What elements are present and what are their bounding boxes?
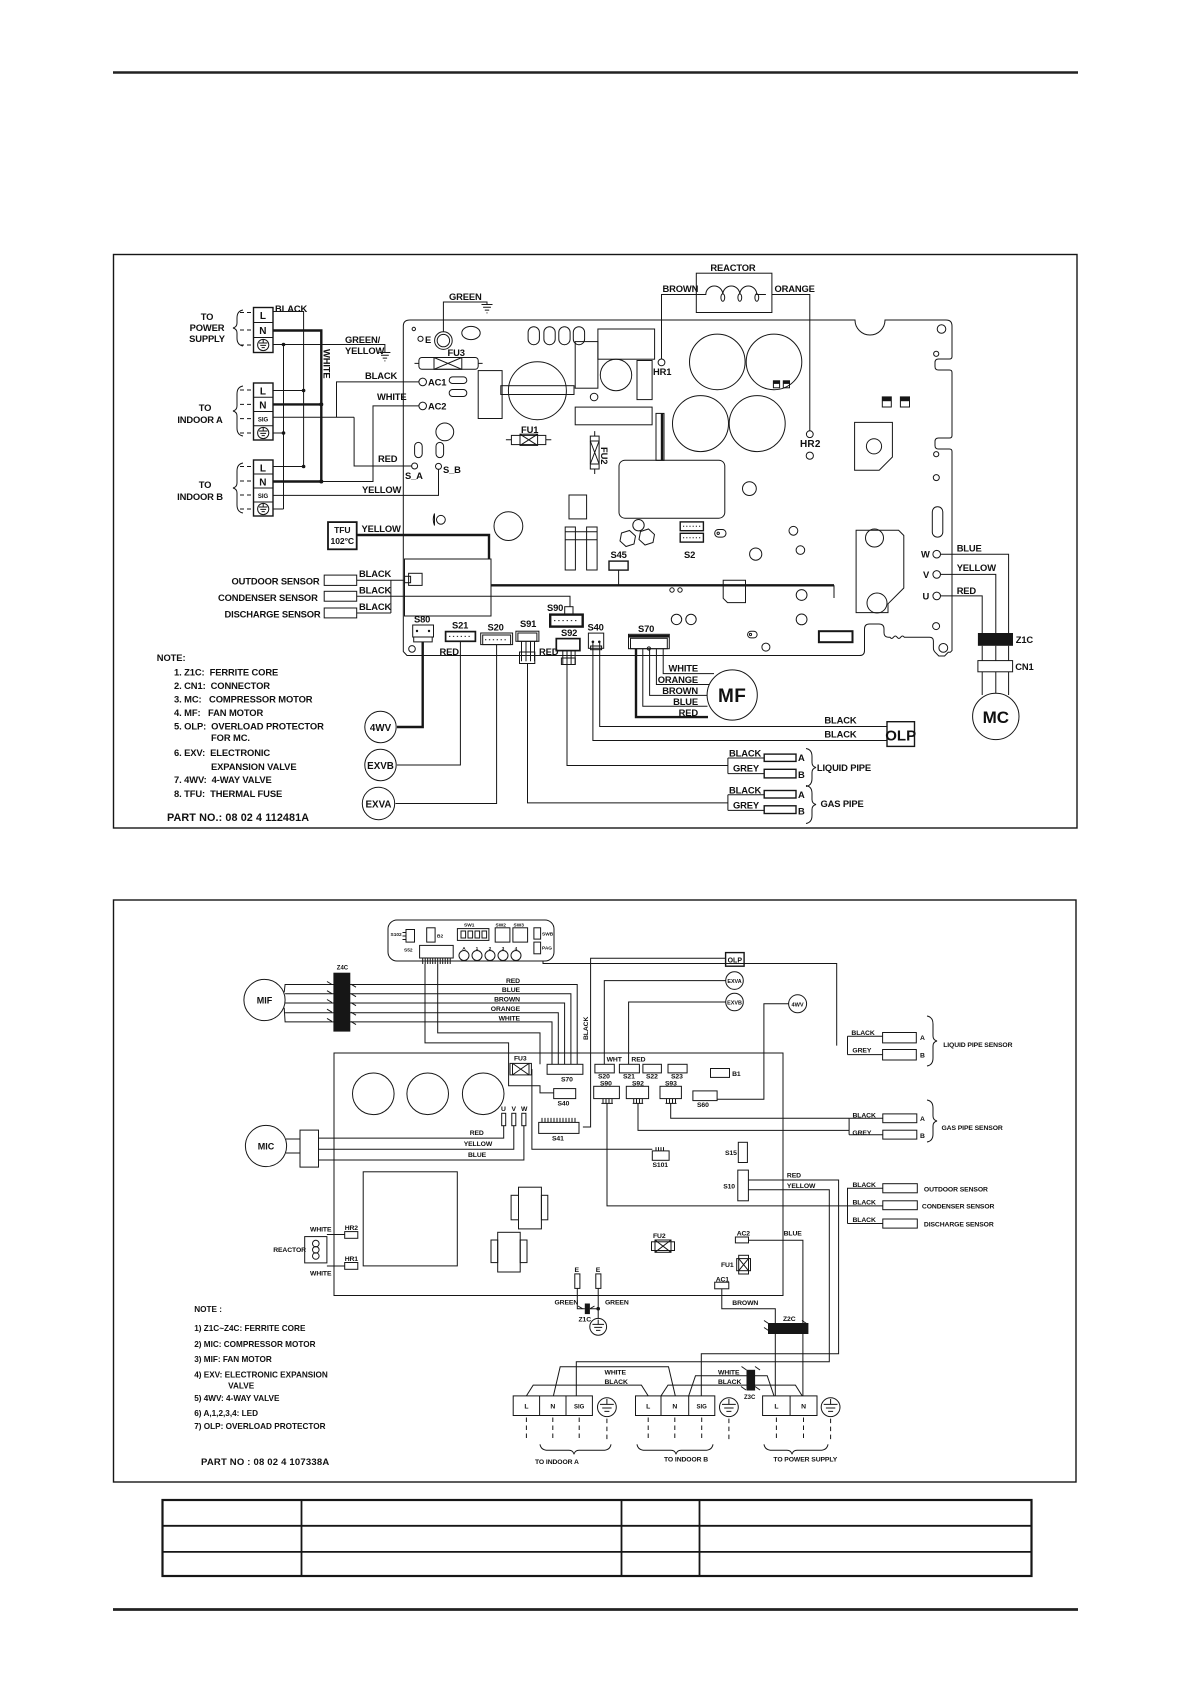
- wire blue W: [941, 554, 1009, 633]
- resistor E right: [596, 1267, 601, 1288]
- svg-text:7. 4WV: 4-WAY VALVE: 7. 4WV: 4-WAY VALVE: [174, 774, 272, 785]
- note list top: [157, 652, 324, 799]
- svg-text:Z3C: Z3C: [744, 1395, 756, 1401]
- thick pad rect bottom right: [819, 631, 853, 642]
- label WHITE AC2: [377, 391, 406, 402]
- svg-text:GREY: GREY: [852, 1048, 871, 1055]
- label BLUE W: [957, 543, 982, 554]
- svg-text:WHITE: WHITE: [605, 1370, 627, 1377]
- svg-text:1) Z1C~Z4C: FERRITE CORE: 1) Z1C~Z4C: FERRITE CORE: [194, 1324, 306, 1333]
- outdoor sensor rect: [324, 568, 391, 586]
- svg-text:L: L: [260, 387, 266, 398]
- wire yellow TFU thick: [357, 535, 489, 559]
- part number bottom: [201, 1457, 329, 1468]
- svg-text:HR1: HR1: [653, 366, 671, 377]
- svg-text:FOR MC.: FOR MC.: [211, 732, 250, 743]
- MIF wire labels: [491, 978, 521, 1022]
- label WHITE vertical: [322, 349, 333, 378]
- svg-text:DISCHARGE SENSOR: DISCHARGE SENSOR: [924, 1222, 994, 1229]
- svg-text:BLACK: BLACK: [275, 303, 307, 314]
- svg-text:NOTE :: NOTE :: [194, 1305, 222, 1314]
- bottom diagram outer box: [114, 900, 1077, 1482]
- svg-text:BLACK: BLACK: [359, 601, 391, 612]
- component small upper mid: [569, 495, 587, 519]
- svg-text:YELLOW: YELLOW: [362, 484, 402, 495]
- terminal block indoor A: [254, 383, 274, 440]
- svg-text:MC: MC: [983, 708, 1009, 727]
- junction dots N wire: [319, 402, 323, 483]
- svg-text:FU2: FU2: [653, 1233, 666, 1240]
- brace TO INDOOR A: [535, 1444, 611, 1466]
- svg-text:TO INDOOR A: TO INDOOR A: [535, 1459, 579, 1466]
- slot right edge: [932, 507, 943, 537]
- connector S21: [446, 620, 476, 642]
- valve EXVA: [362, 787, 394, 819]
- svg-text:B: B: [920, 1053, 925, 1060]
- fuse FU2 bottom: [652, 1233, 675, 1252]
- pad HR2 bottom: [327, 1225, 358, 1238]
- ground indoor B bottom: [720, 1398, 739, 1417]
- svg-text:EXVA: EXVA: [366, 800, 392, 811]
- brace liquid sensor: [927, 1016, 937, 1066]
- heatsink bracket upper: [855, 422, 893, 470]
- wire S90 to condenser: [607, 1103, 883, 1206]
- board wire to S40: [425, 964, 554, 1093]
- svg-text:WHITE: WHITE: [377, 391, 406, 402]
- svg-text:FU2: FU2: [599, 447, 610, 464]
- condenser sensor rect: [324, 585, 570, 607]
- pad AC2: [419, 401, 446, 412]
- svg-text:NOTE:: NOTE:: [157, 652, 186, 663]
- wire S93: [671, 1103, 849, 1118]
- svg-text:B: B: [798, 806, 805, 817]
- circle mid center: [743, 482, 757, 496]
- brace TO INDOOR B: [637, 1444, 713, 1463]
- transformer component 2: [491, 1232, 527, 1272]
- svg-text:WHITE: WHITE: [499, 1015, 521, 1022]
- svg-text:BLACK: BLACK: [824, 715, 856, 726]
- label S45: [609, 549, 628, 570]
- svg-text:S91: S91: [520, 618, 536, 629]
- circle below block: [600, 359, 631, 390]
- connector S70 bottom: [547, 1064, 583, 1083]
- S45 cluster circles: [620, 520, 655, 547]
- dashed stubs indoor A: [240, 390, 254, 433]
- connector S20: [481, 622, 513, 645]
- big rect below TFU wire: [405, 559, 492, 616]
- svg-text:OUTDOOR SENSOR: OUTDOOR SENSOR: [232, 576, 320, 587]
- reactor bottom box: [305, 1237, 327, 1263]
- svg-text:BLACK: BLACK: [729, 785, 761, 796]
- svg-text:S40: S40: [588, 622, 604, 633]
- svg-text:TO: TO: [199, 402, 212, 413]
- heatsink bracket lower: [856, 529, 904, 613]
- wire EXVA to S20: [604, 981, 725, 1065]
- top rule: [113, 71, 1078, 74]
- label YELLOW S_B: [362, 484, 402, 495]
- label BROWN bottom: [732, 1300, 758, 1307]
- stadium pads right of AC1: [449, 377, 467, 397]
- svg-text:6. EXV: ELECTRONIC: 6. EXV: ELECTRONIC: [174, 747, 270, 758]
- label CONDENSER SENSOR: [218, 592, 318, 603]
- fuse FU1 bottom: [721, 1255, 751, 1274]
- resistor E left: [575, 1267, 580, 1288]
- wire S20 to EXVA: [396, 645, 497, 804]
- MIC wires: [286, 1126, 524, 1160]
- pad HR1 bottom: [327, 1256, 358, 1269]
- wire yellow S_B: [273, 469, 439, 496]
- tab screw holes bottom right: [933, 623, 948, 653]
- svg-text:CONDENSER SENSOR: CONDENSER SENSOR: [218, 592, 318, 603]
- svg-text:AC1: AC1: [428, 377, 446, 388]
- label OUTDOOR SENSOR: [232, 576, 320, 587]
- ground indoor A bottom: [598, 1398, 617, 1417]
- svg-text:TO: TO: [201, 311, 214, 322]
- svg-text:REACTOR: REACTOR: [273, 1247, 306, 1254]
- label BLUE bottom: [784, 1231, 803, 1238]
- bottom rect of cluster: [575, 407, 652, 425]
- pad AC2 bottom: [735, 1231, 750, 1243]
- label YELLOW TFU: [362, 523, 402, 534]
- svg-text:Z2C: Z2C: [783, 1316, 796, 1323]
- wire red S10 to SIG B: [701, 1180, 838, 1396]
- terminal block power supply: [254, 308, 274, 353]
- ground power bottom: [821, 1398, 840, 1417]
- compressor MIC: [245, 1125, 286, 1166]
- svg-text:GAS PIPE SENSOR: GAS PIPE SENSOR: [942, 1125, 1003, 1132]
- black bus indoorB power: [661, 1385, 802, 1396]
- wire S91 to gas pipe: [528, 664, 728, 803]
- wire black OLP to S41: [583, 958, 726, 1127]
- svg-text:RED: RED: [957, 585, 977, 596]
- svg-text:WHITE: WHITE: [669, 663, 698, 674]
- ferrite core Z4C: [333, 966, 350, 1032]
- valve EXVB bottom: [726, 993, 744, 1011]
- transformer circle: [508, 362, 566, 420]
- svg-text:6) A,1,2,3,4: LED: 6) A,1,2,3,4: LED: [194, 1409, 258, 1418]
- dashes indoor A: [526, 1418, 607, 1442]
- svg-text:GREEN: GREEN: [449, 291, 482, 302]
- svg-text:GREEN: GREEN: [555, 1300, 579, 1307]
- wire S92 to liquid pipe: [567, 665, 728, 766]
- svg-text:BLUE: BLUE: [502, 987, 521, 994]
- big square component: [363, 1172, 457, 1266]
- svg-text:RED: RED: [378, 453, 398, 464]
- svg-text:BROWN: BROWN: [662, 685, 698, 696]
- svg-text:GAS PIPE: GAS PIPE: [821, 798, 864, 809]
- svg-text:4WV: 4WV: [792, 1003, 804, 1009]
- wire ground green-yellow: [273, 345, 385, 510]
- svg-text:S90: S90: [547, 602, 563, 613]
- svg-text:3) MIF: FAN MOTOR: 3) MIF: FAN MOTOR: [194, 1355, 272, 1364]
- svg-text:SIG: SIG: [697, 1404, 708, 1410]
- svg-text:N: N: [259, 477, 266, 488]
- svg-text:L: L: [524, 1404, 528, 1411]
- circle above S_B: [436, 423, 454, 441]
- black bus indoorA indoorB: [526, 1385, 648, 1396]
- svg-text:EXVA: EXVA: [727, 979, 741, 985]
- label BLACK AC1: [365, 370, 397, 381]
- label TO INDOOR B: [177, 479, 223, 502]
- transformer right rect: [575, 342, 598, 389]
- svg-text:S_B: S_B: [443, 464, 461, 475]
- svg-text:TO INDOOR B: TO INDOOR B: [664, 1457, 708, 1464]
- wires S40 to OLP: [593, 643, 887, 741]
- S70 wires to MF: [636, 649, 714, 717]
- OLP box bottom: [726, 953, 745, 967]
- label RED below S21: [440, 646, 460, 657]
- svg-text:YELLOW: YELLOW: [362, 523, 402, 534]
- svg-text:S92: S92: [561, 627, 577, 638]
- wire S21 to EXVB: [397, 641, 460, 765]
- component B2: [427, 928, 444, 942]
- svg-text:B: B: [798, 769, 805, 780]
- TFU thermal fuse box: [328, 522, 357, 549]
- brace liquid pipe: [806, 749, 816, 787]
- valve EXVA bottom: [726, 972, 744, 990]
- labels WHITE reactor: [310, 1227, 332, 1278]
- connector S41: [539, 1118, 579, 1143]
- svg-text:S20: S20: [598, 1074, 610, 1081]
- svg-text:N: N: [259, 401, 266, 412]
- wires Z1C to CN1: [982, 646, 1008, 661]
- svg-text:YELLOW: YELLOW: [345, 345, 385, 356]
- svg-text:L: L: [774, 1404, 778, 1411]
- svg-text:CONDENSER SENSOR: CONDENSER SENSOR: [922, 1204, 995, 1211]
- wire brown HR1: [662, 295, 697, 360]
- component PAG: [534, 942, 552, 954]
- svg-text:BLACK: BLACK: [583, 1017, 590, 1040]
- svg-text:BLACK: BLACK: [729, 748, 761, 759]
- svg-text:OLP: OLP: [885, 728, 916, 745]
- svg-text:U: U: [501, 1106, 506, 1113]
- svg-text:OUTDOOR SENSOR: OUTDOOR SENSOR: [924, 1187, 988, 1194]
- svg-text:S23: S23: [671, 1074, 683, 1081]
- connector S70: [629, 623, 670, 650]
- capacitor circles: [673, 334, 802, 452]
- PCB circles: [353, 1073, 505, 1115]
- pad AC1 bottom: [715, 1277, 730, 1289]
- svg-text:TFU: TFU: [334, 525, 350, 535]
- discharge sensor bottom: [848, 1217, 994, 1229]
- dashes power: [776, 1418, 830, 1442]
- svg-text:A: A: [920, 1035, 925, 1042]
- resistors U V W: [501, 1106, 528, 1126]
- svg-text:S101: S101: [653, 1162, 669, 1169]
- fan motor MF: [707, 670, 757, 720]
- svg-text:PART NO : 08 02 4 107338A: PART NO : 08 02 4 107338A: [201, 1457, 329, 1468]
- svg-text:HR2: HR2: [345, 1225, 359, 1232]
- labels GREEN: [555, 1300, 629, 1307]
- svg-text:S70: S70: [638, 623, 654, 634]
- labels RED YELLOW S10: [787, 1173, 816, 1191]
- svg-text:BLACK: BLACK: [359, 568, 391, 579]
- svg-text:SIG: SIG: [258, 494, 269, 500]
- label BLACK OLP1: [824, 715, 856, 726]
- svg-text:HR2: HR2: [800, 439, 821, 450]
- label GREEN/YELLOW: [345, 334, 385, 356]
- wire red U: [941, 596, 983, 633]
- svg-text:RED: RED: [679, 707, 699, 718]
- svg-text:102°C: 102°C: [331, 536, 354, 546]
- brace power supply: [233, 310, 243, 346]
- svg-text:EXPANSION VALVE: EXPANSION VALVE: [211, 761, 297, 772]
- labels WHITE BLACK right pair: [718, 1370, 741, 1387]
- terminal block power bottom: [763, 1396, 817, 1416]
- wire orange HR2: [772, 295, 810, 431]
- wire S80 to 4WV thick: [397, 642, 423, 727]
- bottom rule: [113, 1608, 1078, 1611]
- labels RED YELLOW BLUE MIC: [464, 1130, 493, 1159]
- connector S102: [391, 930, 415, 954]
- label DISCHARGE SENSOR: [225, 609, 321, 620]
- svg-text:REACTOR: REACTOR: [710, 262, 756, 273]
- svg-text:MIF: MIF: [257, 996, 273, 1006]
- svg-text:WHT: WHT: [607, 1057, 623, 1064]
- connector S92: [556, 627, 580, 665]
- svg-text:S102: S102: [391, 932, 403, 938]
- LEDs A 1 2 3 4: [459, 946, 521, 961]
- svg-text:EXVB: EXVB: [727, 1001, 742, 1007]
- ground terminal power supply: [258, 339, 269, 350]
- svg-text:W: W: [921, 549, 930, 560]
- wire yellow V: [941, 574, 996, 633]
- svg-text:1. Z1C: FERRITE CORE: 1. Z1C: FERRITE CORE: [174, 667, 278, 678]
- liquid pipe group: [728, 748, 805, 781]
- svg-text:S10: S10: [723, 1184, 735, 1191]
- svg-text:GREEN/: GREEN/: [345, 334, 381, 345]
- wire black AC1: [273, 382, 419, 417]
- svg-text:WHITE: WHITE: [310, 1227, 332, 1234]
- stadium pad right of S2: [715, 530, 726, 538]
- svg-text:RED: RED: [506, 978, 520, 985]
- board wire to liquid feed: [543, 961, 837, 1046]
- connector S80: [413, 614, 434, 642]
- wires CN1 to MC: [982, 672, 1008, 695]
- svg-text:ORANGE: ORANGE: [658, 674, 698, 685]
- ferrite Z1C bottom: [577, 1288, 594, 1323]
- label REACTOR: [710, 262, 756, 273]
- svg-text:BROWN: BROWN: [494, 997, 520, 1004]
- svg-text:POWER: POWER: [190, 322, 225, 333]
- sensor bus vertical: [391, 580, 405, 613]
- labels WHITE BLACK left pair: [605, 1370, 628, 1387]
- switch SW3: [513, 923, 528, 943]
- pad HR2: [800, 431, 821, 460]
- reactor box: [696, 273, 772, 312]
- dashed stubs indoor B: [240, 467, 254, 510]
- label YELLOW V: [957, 562, 997, 573]
- transformer left rect: [478, 371, 502, 419]
- svg-text:EXVB: EXVB: [367, 761, 394, 772]
- labels WHT RED: [607, 1057, 646, 1064]
- svg-text:FU3: FU3: [514, 1056, 527, 1063]
- svg-text:N: N: [672, 1404, 677, 1411]
- terminal block indoor B bottom: [636, 1396, 715, 1416]
- wire 4WV to S60: [717, 1004, 789, 1100]
- svg-text:BROWN: BROWN: [663, 283, 699, 294]
- svg-text:ORANGE: ORANGE: [491, 1006, 521, 1013]
- svg-text:S15: S15: [725, 1150, 737, 1157]
- revision table: [163, 1500, 1032, 1576]
- svg-text:BLACK: BLACK: [359, 585, 391, 596]
- small pads near bottom edge: [748, 590, 807, 652]
- terminal E circle small: [418, 334, 431, 345]
- pad S60: [693, 1091, 717, 1109]
- sensor liquid pipe bottom: [848, 1030, 926, 1060]
- small pads right edge: [933, 351, 939, 480]
- label BLACK OLP2: [824, 729, 856, 740]
- connector S40: [588, 622, 604, 650]
- svg-text:S80: S80: [414, 614, 430, 625]
- ground symbol green: [482, 305, 493, 313]
- ground bottom: [590, 1288, 607, 1335]
- MIF wires through Z4C: [284, 982, 577, 1065]
- svg-text:GREY: GREY: [733, 800, 760, 811]
- svg-text:S60: S60: [697, 1102, 709, 1109]
- wire white AC2: [321, 406, 419, 482]
- svg-text:DISCHARGE SENSOR: DISCHARGE SENSOR: [225, 609, 321, 620]
- label BLACK vertical wire: [583, 1017, 590, 1040]
- discharge sensor rect: [324, 601, 391, 618]
- wire N white thick: [273, 331, 321, 482]
- label LIQUID PIPE SENSOR: [943, 1042, 1012, 1049]
- svg-text:PAG: PAG: [542, 946, 552, 952]
- screw hole top right: [937, 325, 946, 334]
- svg-text:CN1: CN1: [1015, 661, 1033, 672]
- fuse FU3 bottom: [510, 1056, 531, 1075]
- label GAS PIPE SENSOR: [942, 1125, 1003, 1132]
- board wire to S70: [438, 964, 540, 1064]
- label TO POWER SUPPLY: [189, 311, 226, 344]
- connector S40 bottom: [554, 1089, 576, 1108]
- svg-text:4) EXV: ELECTRONIC EXPANSION: 4) EXV: ELECTRONIC EXPANSION: [194, 1371, 328, 1380]
- label GREEN: [449, 291, 482, 302]
- fuse FU1: [506, 424, 551, 445]
- PCB outline top diagram: [403, 320, 952, 656]
- svg-text:3. MC: COMPRESSOR MOTOR: 3. MC: COMPRESSOR MOTOR: [174, 694, 313, 705]
- svg-text:E: E: [425, 334, 431, 345]
- svg-text:N: N: [550, 1404, 555, 1411]
- svg-text:N: N: [259, 326, 266, 337]
- block top right of transformer: [598, 329, 655, 359]
- svg-text:MIC: MIC: [258, 1142, 275, 1152]
- small circle near transformer: [590, 393, 598, 401]
- sensor gas pipe bottom: [849, 1113, 925, 1141]
- brace TO POWER SUPPLY: [764, 1444, 838, 1463]
- part number top: [167, 812, 309, 824]
- svg-text:W: W: [521, 1106, 528, 1113]
- connector S71: [420, 945, 454, 964]
- label LIQUID PIPE: [817, 762, 871, 773]
- svg-text:U: U: [923, 591, 930, 602]
- outdoor sensor pad: [405, 573, 423, 585]
- dashes indoor B: [648, 1418, 729, 1442]
- junction dots L wire: [302, 389, 306, 469]
- svg-text:2. CN1: CONNECTOR: 2. CN1: CONNECTOR: [174, 680, 270, 691]
- brace gas sensor: [927, 1100, 937, 1142]
- svg-text:MF: MF: [718, 686, 746, 707]
- wire green to ground: [443, 302, 487, 332]
- wire FU3 to S101: [532, 1069, 652, 1149]
- label ORANGE: [775, 283, 815, 294]
- condenser sensor bottom: [853, 1200, 995, 1211]
- svg-text:V: V: [512, 1106, 517, 1113]
- pad below S80: [409, 646, 416, 653]
- pad AC1: [419, 377, 446, 388]
- pad row S20-S23: [595, 1064, 687, 1080]
- S45 stub to bus: [618, 571, 620, 586]
